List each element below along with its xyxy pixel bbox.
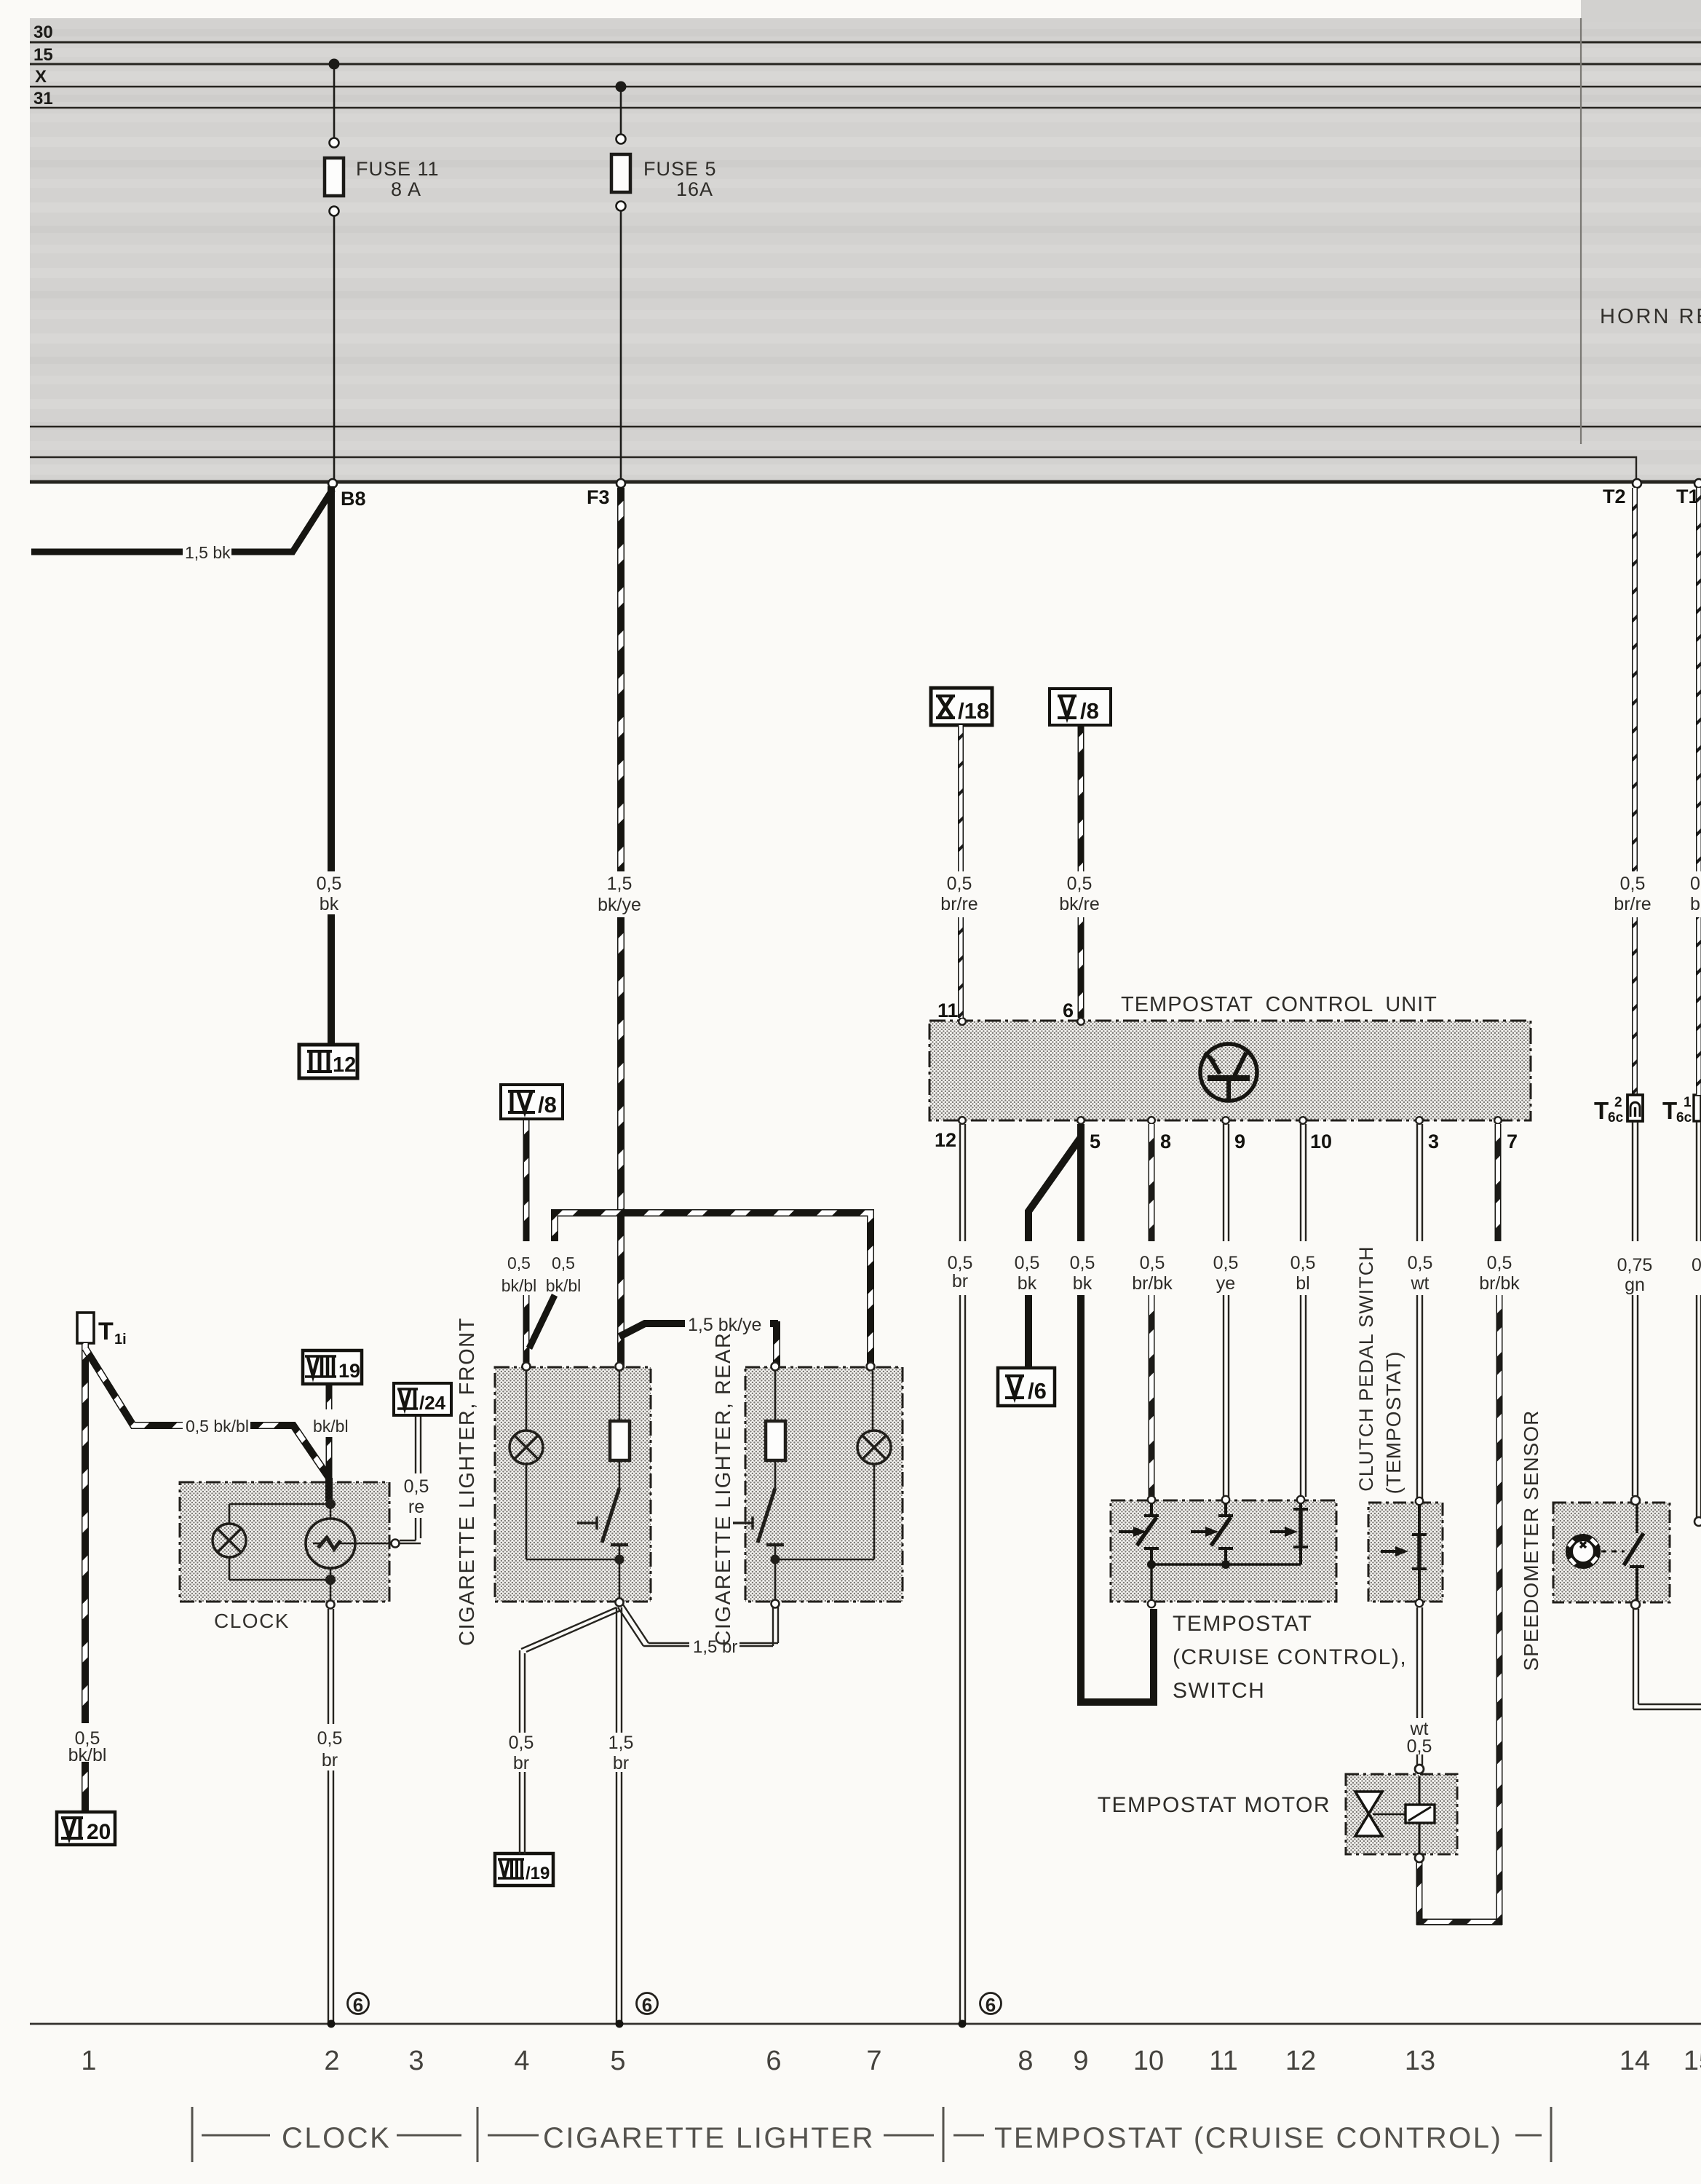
- svg-text:ye: ye: [1216, 1273, 1235, 1294]
- svg-text:0,5: 0,5: [552, 1254, 575, 1273]
- svg-text:CIGARETTE LIGHTER, REAR: CIGARETTE LIGHTER, REAR: [712, 1332, 735, 1646]
- svg-text:br/bk: br/bk: [1132, 1273, 1173, 1294]
- svg-text:9: 9: [1234, 1131, 1245, 1152]
- svg-text:20: 20: [87, 1820, 111, 1844]
- svg-text:0,75: 0,75: [1617, 1255, 1653, 1275]
- svg-text:br/re: br/re: [940, 894, 978, 914]
- svg-text:0,5: 0,5: [1487, 1253, 1512, 1273]
- svg-text:4: 4: [514, 2046, 529, 2076]
- svg-text:0,5: 0,5: [507, 1254, 531, 1273]
- svg-text:br/re: br/re: [1614, 894, 1651, 914]
- svg-text:CIGARETTE LIGHTER, FRONT: CIGARETTE LIGHTER, FRONT: [456, 1317, 479, 1646]
- svg-text:0,5: 0,5: [1140, 1253, 1165, 1273]
- svg-text:12: 12: [1285, 2046, 1316, 2076]
- svg-text:5: 5: [610, 2046, 625, 2076]
- svg-text:0,5: 0,5: [1290, 1253, 1316, 1273]
- svg-text:15: 15: [1684, 2046, 1701, 2076]
- svg-text:6c: 6c: [1676, 1110, 1692, 1125]
- svg-text:B8: B8: [341, 488, 366, 510]
- svg-text:14: 14: [1619, 2046, 1650, 2076]
- svg-text:FUSE 11: FUSE 11: [356, 158, 440, 180]
- svg-text:bk/bl: bk/bl: [68, 1745, 107, 1765]
- svg-text:CLOCK: CLOCK: [214, 1610, 290, 1632]
- svg-text:br: br: [1690, 894, 1701, 914]
- svg-text:6: 6: [353, 1994, 363, 2016]
- svg-text:bk/bl: bk/bl: [313, 1417, 349, 1436]
- svg-text:0,5: 0,5: [509, 1733, 534, 1753]
- svg-text:1,5: 1,5: [607, 874, 633, 894]
- svg-text:7: 7: [1507, 1131, 1518, 1152]
- svg-text:12: 12: [333, 1053, 356, 1077]
- svg-text:3: 3: [1428, 1131, 1439, 1152]
- svg-text:FUSE 5: FUSE 5: [643, 158, 717, 180]
- svg-text:/6: /6: [1028, 1378, 1047, 1404]
- svg-text:0,5 bk/bl: 0,5 bk/bl: [186, 1417, 249, 1436]
- svg-text:0: 0: [1692, 1255, 1701, 1275]
- svg-text:TEMPOSTAT (CRUISE CONTROL): TEMPOSTAT (CRUISE CONTROL): [994, 2122, 1502, 2154]
- svg-text:T: T: [1594, 1097, 1609, 1124]
- svg-text:0,5: 0,5: [317, 1728, 343, 1749]
- svg-text:0,5: 0,5: [1407, 1736, 1432, 1757]
- svg-text:re: re: [408, 1497, 424, 1517]
- svg-text:3: 3: [408, 2046, 424, 2076]
- svg-text:5: 5: [1090, 1131, 1101, 1152]
- svg-text:T1: T1: [1676, 486, 1700, 507]
- svg-text:0,5: 0,5: [404, 1476, 429, 1497]
- svg-text:30: 30: [33, 23, 53, 42]
- svg-text:6: 6: [986, 1994, 996, 2016]
- svg-text:SPEEDOMETER SENSOR: SPEEDOMETER SENSOR: [1520, 1410, 1542, 1671]
- svg-text:T: T: [98, 1318, 114, 1345]
- svg-text:31: 31: [33, 89, 53, 108]
- svg-text:1: 1: [1684, 1095, 1692, 1110]
- svg-text:9: 9: [1073, 2046, 1088, 2076]
- svg-text:0,5: 0,5: [317, 874, 342, 894]
- svg-text:1,5 bk: 1,5 bk: [185, 543, 231, 562]
- svg-text:br: br: [952, 1271, 968, 1291]
- svg-text:bk: bk: [320, 894, 339, 914]
- svg-text:br/bk: br/bk: [1479, 1273, 1520, 1294]
- svg-text:0,5: 0,5: [1620, 874, 1646, 894]
- svg-text:10: 10: [1133, 2046, 1164, 2076]
- svg-text:T2: T2: [1603, 486, 1626, 507]
- svg-text:16A: 16A: [676, 178, 713, 200]
- svg-text:bk/bl: bk/bl: [546, 1276, 582, 1295]
- svg-text:wt: wt: [1411, 1273, 1430, 1294]
- svg-text:HORN REL: HORN REL: [1600, 305, 1701, 328]
- svg-text:0,5: 0,5: [1070, 1253, 1095, 1273]
- svg-text:6c: 6c: [1608, 1110, 1624, 1125]
- svg-text:19: 19: [338, 1360, 360, 1382]
- svg-text:br: br: [613, 1753, 629, 1773]
- svg-text:8: 8: [1160, 1131, 1171, 1152]
- svg-text:0,5: 0,5: [1408, 1253, 1433, 1273]
- svg-text:TEMPOSTAT: TEMPOSTAT: [1173, 1612, 1312, 1636]
- svg-text:T: T: [1662, 1097, 1677, 1124]
- svg-text:bl: bl: [1296, 1273, 1309, 1294]
- svg-text:7: 7: [866, 2046, 881, 2076]
- svg-text:0,5: 0,5: [948, 1253, 973, 1273]
- svg-text:br: br: [322, 1750, 338, 1770]
- svg-text:CIGARETTE LIGHTER: CIGARETTE LIGHTER: [543, 2122, 875, 2154]
- svg-text:6: 6: [1063, 1000, 1074, 1021]
- svg-text:bk/re: bk/re: [1059, 894, 1100, 914]
- svg-text:1i: 1i: [114, 1332, 127, 1348]
- svg-text:/8: /8: [1080, 698, 1099, 724]
- svg-text:/18: /18: [958, 698, 989, 724]
- svg-text:2: 2: [324, 2046, 339, 2076]
- svg-text:15: 15: [33, 45, 53, 65]
- svg-text:gn: gn: [1625, 1275, 1645, 1295]
- svg-text:0,5: 0,5: [1015, 1253, 1040, 1273]
- svg-text:6: 6: [766, 2046, 781, 2076]
- svg-text:X: X: [35, 67, 47, 87]
- svg-text:0,5: 0,5: [947, 874, 972, 894]
- svg-text:6: 6: [642, 1994, 652, 2016]
- svg-text:12: 12: [935, 1129, 956, 1151]
- svg-text:0,: 0,: [1690, 874, 1701, 894]
- svg-text:11: 11: [1209, 2046, 1237, 2076]
- svg-text:10: 10: [1310, 1131, 1332, 1152]
- svg-text:1: 1: [81, 2046, 96, 2076]
- svg-text:TEMPOSTAT CONTROL UNIT: TEMPOSTAT CONTROL UNIT: [1121, 993, 1438, 1016]
- svg-text:bk: bk: [1073, 1273, 1093, 1294]
- svg-text:CLUTCH PEDAL SWITCH: CLUTCH PEDAL SWITCH: [1355, 1246, 1377, 1492]
- svg-text:13: 13: [1405, 2046, 1435, 2076]
- svg-text:/19: /19: [526, 1864, 550, 1883]
- svg-text:/24: /24: [419, 1392, 446, 1414]
- svg-text:8 A: 8 A: [391, 178, 421, 200]
- svg-text:2: 2: [1614, 1095, 1622, 1110]
- svg-text:br: br: [513, 1753, 529, 1773]
- svg-text:SWITCH: SWITCH: [1173, 1679, 1265, 1703]
- svg-text:bk/bl: bk/bl: [501, 1276, 537, 1295]
- svg-text:0,5: 0,5: [1067, 874, 1093, 894]
- svg-text:(TEMPOSTAT): (TEMPOSTAT): [1382, 1351, 1405, 1495]
- svg-text:bk/ye: bk/ye: [598, 895, 641, 915]
- svg-text:11: 11: [937, 1000, 959, 1021]
- svg-text:(CRUISE CONTROL),: (CRUISE CONTROL),: [1173, 1645, 1407, 1669]
- svg-text:0,5: 0,5: [1213, 1253, 1239, 1273]
- svg-text:1,5: 1,5: [608, 1733, 634, 1753]
- svg-text:F3: F3: [587, 486, 610, 508]
- svg-text:/8: /8: [538, 1092, 557, 1117]
- svg-text:bk: bk: [1018, 1273, 1037, 1294]
- svg-text:8: 8: [1018, 2046, 1033, 2076]
- svg-text:CLOCK: CLOCK: [282, 2122, 391, 2154]
- svg-text:TEMPOSTAT MOTOR: TEMPOSTAT MOTOR: [1098, 1793, 1331, 1817]
